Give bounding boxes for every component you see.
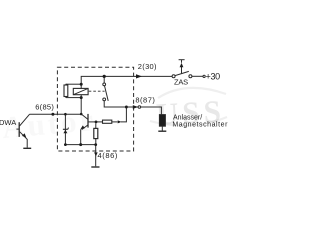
svg-text:2(30): 2(30) xyxy=(138,62,157,71)
svg-text:Magnetschalter: Magnetschalter xyxy=(172,121,228,128)
svg-text:8(87): 8(87) xyxy=(135,95,155,104)
svg-text:6(85): 6(85) xyxy=(35,102,54,111)
svg-text:+30: +30 xyxy=(206,72,221,82)
svg-text:4(86): 4(86) xyxy=(98,151,119,160)
svg-text:ZAS: ZAS xyxy=(174,78,188,87)
svg-text:DWA: DWA xyxy=(0,118,16,127)
